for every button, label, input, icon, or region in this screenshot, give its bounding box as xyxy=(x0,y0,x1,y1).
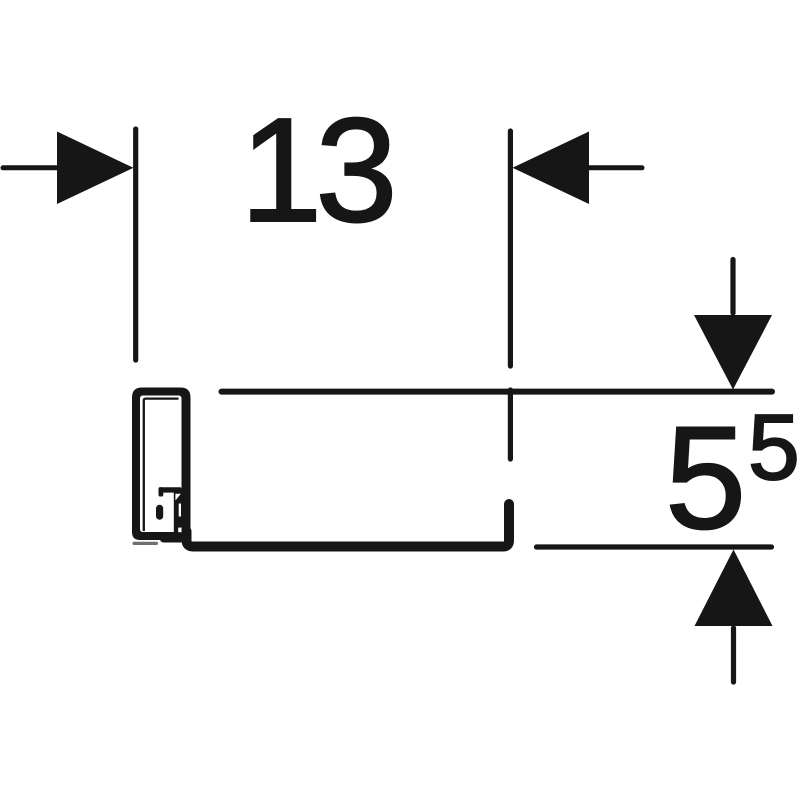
svg-text:5: 5 xyxy=(665,396,746,559)
dimension 13: left arrowhead xyxy=(57,132,134,205)
clip detail: white sliver notch xyxy=(179,504,181,517)
clip detail: white wedge notch xyxy=(175,494,181,501)
profile body: inner surface lines xyxy=(144,399,179,531)
dimension 5.5: down arrowhead xyxy=(694,315,772,390)
svg-text:13: 13 xyxy=(240,88,391,253)
dimension 5.5: up arrow tail xyxy=(731,628,736,682)
clip detail: top bar xyxy=(159,487,182,492)
clip detail: white bottom notch xyxy=(178,528,181,533)
channel profile J-shape xyxy=(187,504,510,547)
dimension 13: right arrow tail xyxy=(589,165,642,170)
clip detail: vertical bar and wall mass xyxy=(174,492,182,532)
profile body: outer wall ring xyxy=(132,388,191,541)
svg-text:5: 5 xyxy=(748,395,800,499)
dimension 13: right extension line lower segment xyxy=(508,390,513,459)
dimension 5.5: bottom reference line xyxy=(537,544,772,549)
dimension 5.5: top reference line xyxy=(222,389,773,395)
dimension 5.5: down arrow tail xyxy=(730,260,735,314)
clip detail: pill xyxy=(156,505,163,520)
dimension 13: left arrow tail xyxy=(3,165,57,170)
dimension 5.5: up arrowhead xyxy=(695,550,773,627)
dimension 13: right extension line upper segment xyxy=(508,131,513,366)
dimension 13: right arrowhead xyxy=(513,132,590,205)
clip detail: top bar left hook xyxy=(159,487,164,496)
profile body: bottom step tab xyxy=(160,534,182,543)
dimension 13: left extension line xyxy=(133,129,138,360)
profile body: faint bottom lip line xyxy=(133,542,159,545)
